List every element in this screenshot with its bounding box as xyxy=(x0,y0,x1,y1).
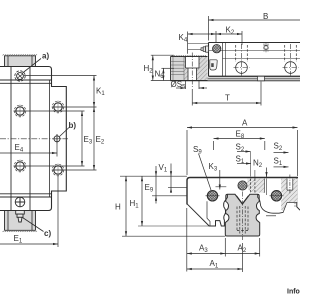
carriage bottom ext xyxy=(138,225,209,227)
dim K1 xyxy=(24,76,105,108)
label c) with leader xyxy=(23,218,52,239)
dim S2 left xyxy=(236,143,251,154)
rail hole centerline sectioned xyxy=(191,53,193,89)
dim K3 xyxy=(209,162,221,190)
ledge line v1 xyxy=(168,187,187,189)
svg-text:Infoq: Infoq xyxy=(287,289,300,296)
rail cross section xyxy=(225,194,259,236)
svg-text:c): c) xyxy=(44,229,51,238)
dim T xyxy=(192,82,261,106)
S1 left ext line xyxy=(254,170,256,179)
dim H2 xyxy=(144,55,175,80)
screw a xyxy=(15,71,25,81)
rail lower strip under carriage xyxy=(171,77,301,81)
dim H xyxy=(115,176,127,236)
carriage front right arm outline xyxy=(258,178,300,216)
dim N6 xyxy=(155,68,175,80)
svg-text:b): b) xyxy=(69,121,77,130)
svg-text:T: T xyxy=(225,94,230,103)
dim A xyxy=(187,119,298,177)
dim OS5 xyxy=(171,80,208,91)
rail edges through carriage xyxy=(10,67,12,211)
screw center ext xyxy=(152,195,187,197)
carriage screws 4x xyxy=(14,101,65,177)
label b) with leader xyxy=(60,121,77,137)
svg-text:A: A xyxy=(242,119,248,128)
carriage front left part xyxy=(187,178,298,227)
rail bottom exposed segment xyxy=(5,211,36,231)
centerline xyxy=(0,138,68,140)
dim E1 xyxy=(0,176,58,248)
dim A2 xyxy=(225,238,259,257)
carriage side body xyxy=(209,43,301,77)
lube funnel front xyxy=(238,181,247,190)
section hatch wedge above rail xyxy=(247,179,264,193)
dim S1 right xyxy=(274,157,289,169)
screw c (rail screw bottom) xyxy=(15,197,25,207)
rail hole 1 under carriage xyxy=(234,44,250,76)
dim N2 xyxy=(253,159,268,178)
carriage end cap lines bottom xyxy=(0,193,52,195)
top reference line xyxy=(120,175,187,177)
lube port knurled circle xyxy=(213,45,221,53)
wedge thread dashes xyxy=(251,179,255,193)
S5 counterbore hole section xyxy=(186,57,200,81)
rail sectioned left block xyxy=(171,57,208,81)
carriage outline plan view xyxy=(0,67,66,211)
label a) with leader xyxy=(23,52,50,74)
rail break hatch ticks above section xyxy=(172,55,207,56)
dim B xyxy=(209,12,301,41)
dim K4 xyxy=(179,32,217,54)
S2 left ext line xyxy=(250,152,252,177)
thread slot right arm xyxy=(267,175,293,196)
dim E9 xyxy=(145,166,158,204)
carriage screw right front xyxy=(270,191,284,201)
rail centerline xyxy=(242,192,244,241)
dim E4 xyxy=(0,134,57,157)
section hatch right arm xyxy=(270,179,297,212)
pin hole detail xyxy=(264,43,268,52)
lube pocket section xyxy=(210,60,217,70)
rail break hatching bottom xyxy=(3,231,38,232)
svg-text:B: B xyxy=(263,12,268,21)
svg-text:a): a) xyxy=(42,52,49,61)
grease nipple side xyxy=(201,46,209,52)
rail hidden mounting hole xyxy=(237,206,248,234)
dim A1 xyxy=(187,243,243,272)
dim E8 xyxy=(214,130,265,151)
dim H1 xyxy=(130,176,144,226)
rail break hatching top xyxy=(3,54,38,55)
dim A3 xyxy=(187,208,226,272)
dim E2 xyxy=(52,107,105,170)
lube fitting bottom xyxy=(16,211,25,223)
hole b xyxy=(53,134,62,143)
rail end profile lines xyxy=(171,57,185,81)
carriage inner edge line xyxy=(49,80,51,197)
dim K2 xyxy=(216,26,242,46)
dim V1 xyxy=(159,163,173,193)
rail top exposed segment xyxy=(5,56,36,67)
label S9 leader xyxy=(193,145,211,190)
carriage end cap lines top xyxy=(0,79,52,81)
dim S2 right xyxy=(274,142,289,154)
dim S1 left xyxy=(236,155,252,166)
svg-text:H: H xyxy=(115,203,121,212)
rail hole 2 under carriage xyxy=(283,44,299,76)
rail joint marker xyxy=(258,76,265,81)
carriage screw left front xyxy=(206,191,220,201)
rail bottom ext xyxy=(122,235,225,237)
dim E3 xyxy=(14,111,93,166)
